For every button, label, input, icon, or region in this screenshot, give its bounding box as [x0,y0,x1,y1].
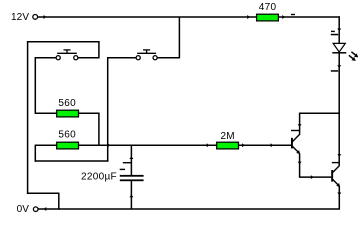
current arrow A1 right [44,15,47,19]
wire button2 down vertical [107,58,109,146]
wire T1 collector branch [300,112,340,114]
transistor Q2 [331,166,340,187]
wire main mid row [35,144,291,146]
svg-text:470: 470 [259,2,277,13]
current arrow A3 right [282,15,285,19]
wire button1 down vertical [34,57,36,114]
wire T1 collector vertical [299,113,301,135]
current dash D1 [291,14,295,15]
wire resistor1 right vertical [98,113,100,146]
wire T1 emitter vertical [299,153,301,177]
current arrow A4 down [337,29,341,32]
current arrow A14 right [271,143,274,147]
svg-text:12V: 12V [11,12,29,23]
wire capacitor top vertical [130,145,132,175]
wire 0V left jog [27,192,60,194]
current arrow A9 right [311,175,314,179]
svg-text:560: 560 [58,98,76,109]
push switch SW1 [56,50,78,60]
current arrow A13 right [242,143,245,147]
wire T2 emitter vertical [338,186,340,209]
current dash D2b [331,34,338,36]
wire button1 right lead [78,57,99,59]
wire right rail upper [338,16,340,43]
current arrow A16 up [129,195,133,198]
wire 0V left vertical [58,193,60,210]
push switch SW2 [136,50,157,60]
current dash D6 [123,162,131,163]
wire loop top [27,41,100,43]
capacitor C1 2200uF plates [120,175,144,181]
transistor Q1 [291,134,300,154]
current arrow A10 down [337,193,341,196]
svg-text:0V: 0V [17,204,30,215]
resistor 2M [217,131,239,149]
current dash D5 [332,162,339,163]
capacitor C1 polarity minus [120,169,125,170]
wire outer left vertical [27,41,29,194]
wire button2 left lead [107,57,136,59]
current dash D3 [331,70,338,72]
LED D1 light arrows [349,52,358,61]
current arrow A15 up [129,156,133,159]
current dash D2a [331,31,335,32]
wire stub bottom [35,160,109,162]
terminal 0V [33,207,38,212]
wire button2 right lead [157,57,179,59]
svg-text:2200µF: 2200µF [81,172,117,183]
current arrow A12 right [207,143,210,147]
current arrow A6 down [298,124,302,127]
current arrow A5 down [337,65,341,68]
current arrow A17 left [44,207,47,211]
wire right rail lower [338,53,340,166]
resistor 560 upper [57,98,79,117]
LED D1 [332,43,346,52]
wire bottom rail [38,208,340,210]
terminal 12V [33,15,38,20]
wire capacitor bottom vertical [130,180,132,209]
wire T1e to T2b [299,176,332,178]
svg-text:2M: 2M [220,131,235,142]
current arrow A7 down [337,154,341,157]
wire stub right vertical [107,145,109,161]
wire button2 up vertical [178,17,180,58]
current arrow A11 right [108,143,111,147]
wire resistor1 row [35,112,99,114]
resistor 560 lower [57,130,79,149]
wire 12V rail [38,16,340,18]
wire stub left vertical [34,145,36,162]
current dash D4 [291,130,300,131]
svg-text:560: 560 [58,130,76,141]
resistor 470 [257,2,279,21]
current arrow A2 right [247,15,250,19]
wire loop right vertical [98,42,100,59]
current arrow A8 down [298,162,302,165]
wire button1 left lead [35,57,56,59]
